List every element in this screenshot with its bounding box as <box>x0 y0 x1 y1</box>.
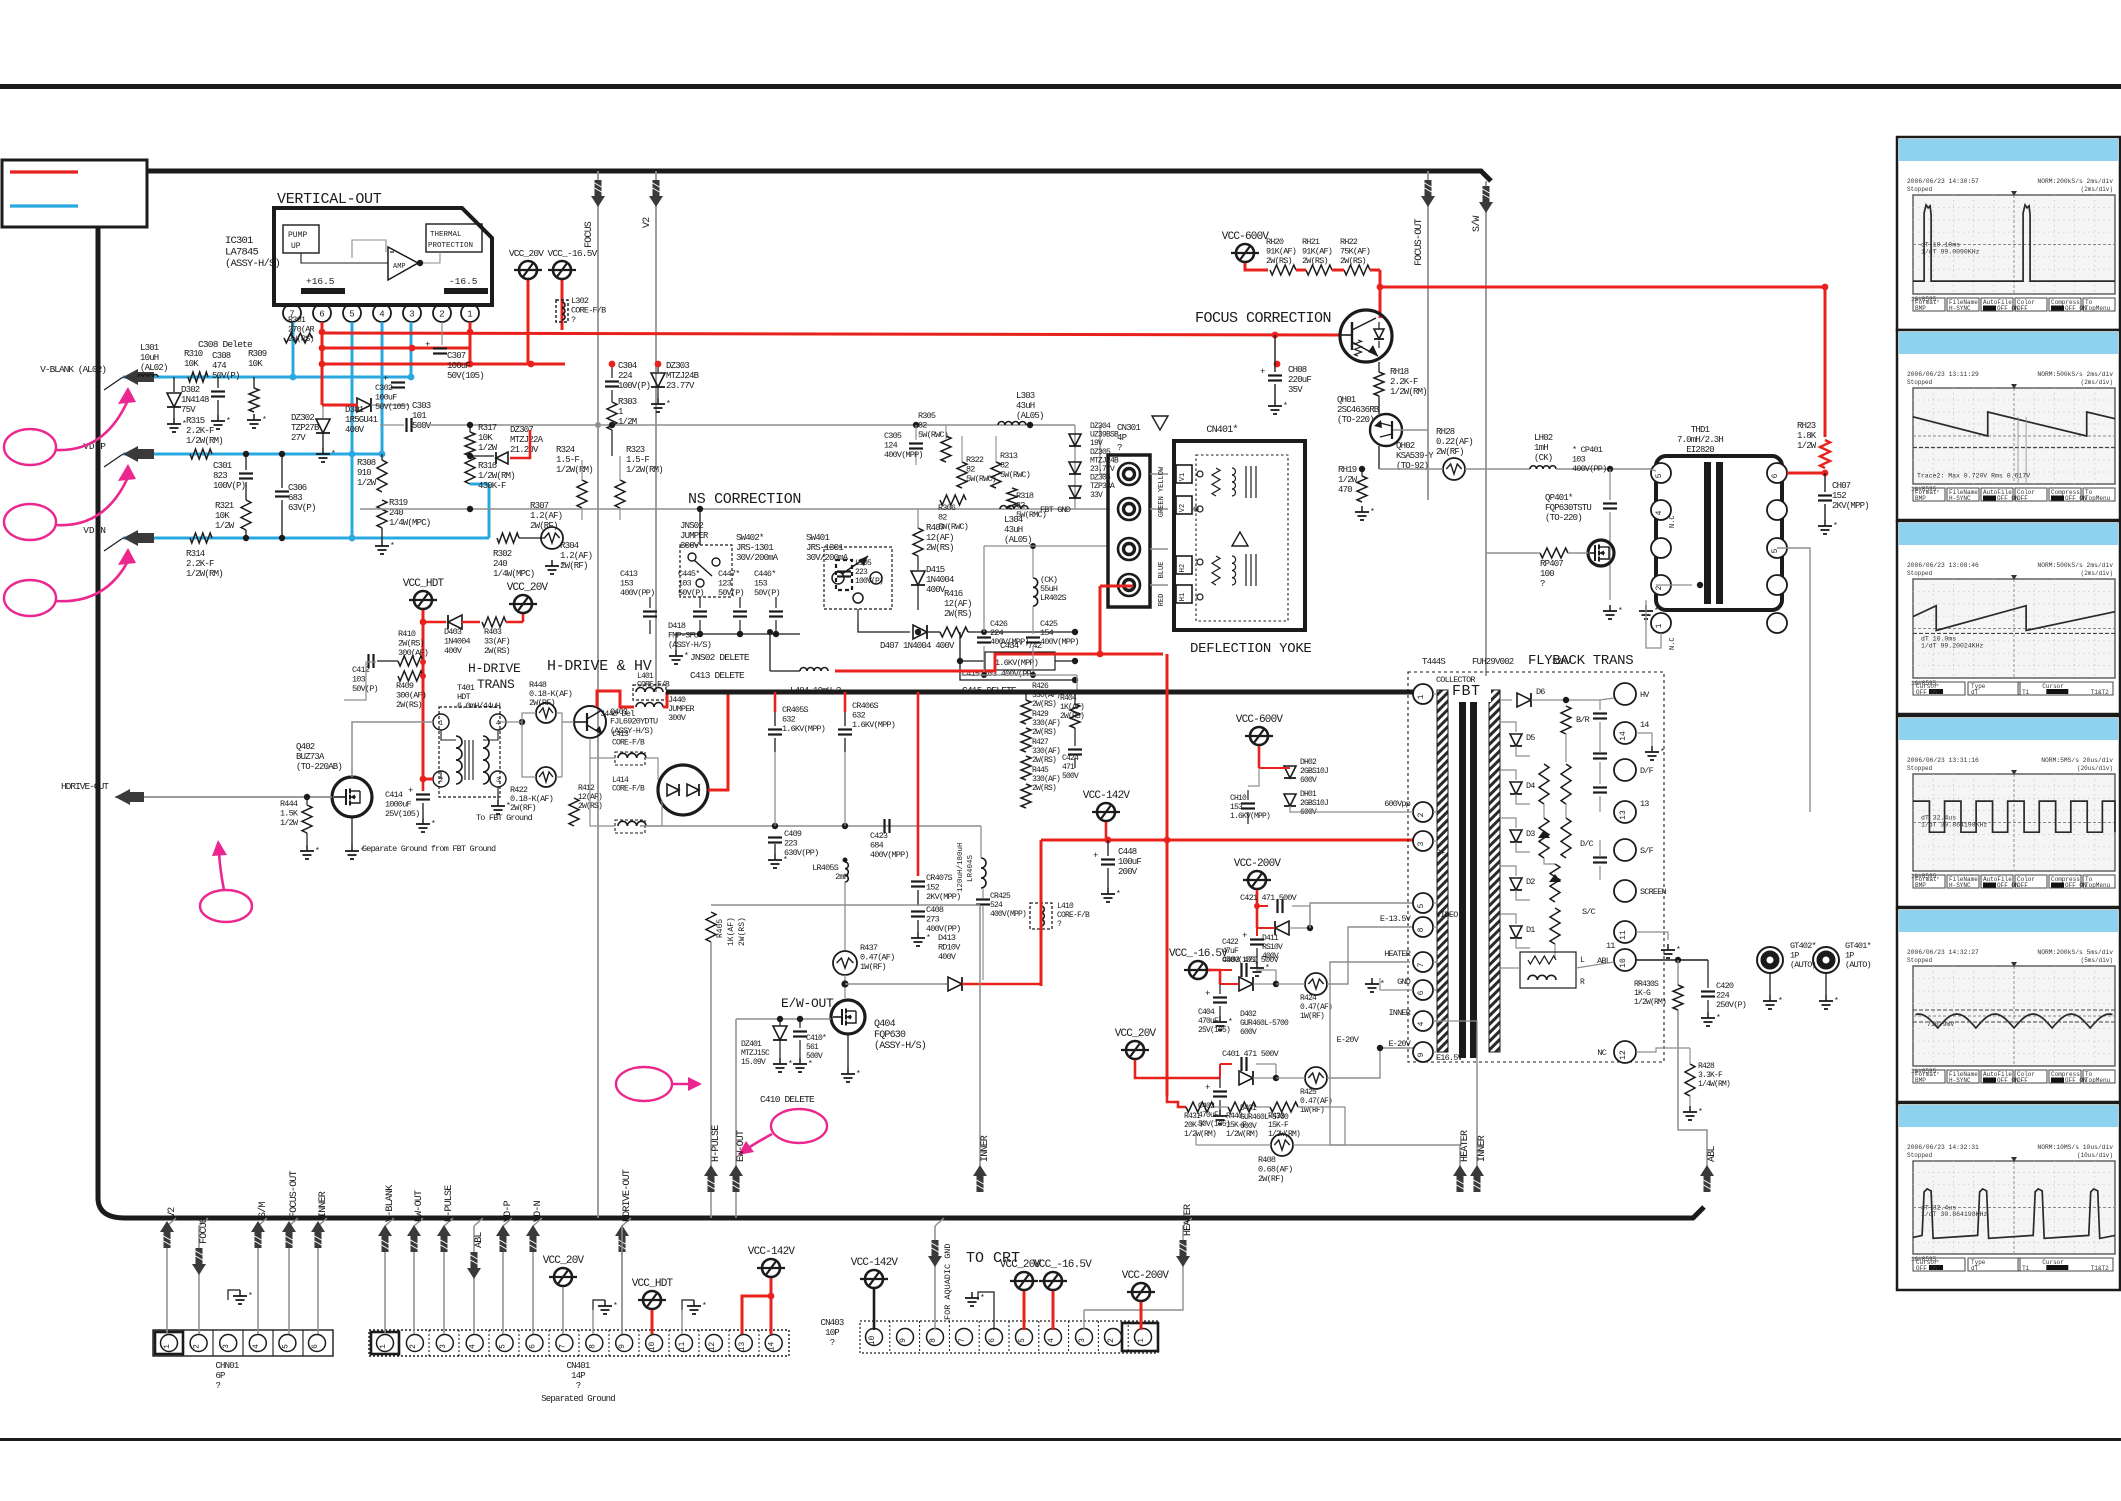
svg-text:100uF: 100uF <box>375 393 397 403</box>
svg-text:C308 Delete: C308 Delete <box>198 339 253 350</box>
svg-text:23.77V: 23.77V <box>666 381 695 391</box>
inductor L410 <box>1030 903 1052 929</box>
svg-text:123: 123 <box>718 579 732 589</box>
svg-text:TopMenu: TopMenu <box>2085 882 2111 889</box>
svg-text:C307: C307 <box>447 351 466 361</box>
node V-BLANK entry arrow <box>123 369 138 385</box>
svg-text:(AL05): (AL05) <box>1004 535 1032 545</box>
svg-text:C308: C308 <box>212 351 231 361</box>
ground R444 <box>306 845 308 851</box>
capacitor C301 resistor R321 <box>245 454 247 470</box>
svg-text:2W(RF): 2W(RF) <box>510 803 536 813</box>
svg-text:R403: R403 <box>484 627 502 637</box>
svg-text:R430: R430 <box>1268 1112 1285 1121</box>
wire cyan riser R316 <box>488 484 491 538</box>
wire cyan drop pin4 <box>381 322 384 454</box>
svg-text:+: + <box>1205 989 1210 999</box>
svg-text:C414: C414 <box>385 790 403 800</box>
svg-text:L303: L303 <box>1016 391 1035 401</box>
svg-text:T1: T1 <box>2022 689 2030 696</box>
diode D403 resistor R403 red link <box>423 621 446 624</box>
ground CN401 pin11 <box>682 1300 694 1310</box>
resistor R301 <box>291 322 293 338</box>
svg-text:10: 10 <box>1619 958 1628 968</box>
op-amp AMP symbol inside IC301 <box>388 247 418 280</box>
svg-text:25V(105): 25V(105) <box>1198 1026 1230 1035</box>
svg-text:H-PULSE: H-PULSE <box>711 1125 722 1162</box>
resistor R315 <box>190 449 212 459</box>
svg-text:6P: 6P <box>215 1371 225 1381</box>
svg-text:*: * <box>1283 402 1287 411</box>
svg-text:82: 82 <box>938 513 947 523</box>
svg-text:HEATER: HEATER <box>1183 1204 1194 1236</box>
wire VD-P cyan net <box>123 453 382 456</box>
svg-text:1P: 1P <box>1790 951 1799 961</box>
svg-text:(20us/div): (20us/div) <box>2077 765 2113 772</box>
svg-text:RH20: RH20 <box>1266 237 1284 247</box>
svg-text:D402: D402 <box>1240 1010 1257 1019</box>
resistor R416 <box>917 600 919 610</box>
svg-text:LA7845: LA7845 <box>225 247 259 259</box>
svg-text:2006/06/23 14:30:57: 2006/06/23 14:30:57 <box>1907 178 1979 185</box>
svg-text:THD1: THD1 <box>1691 425 1710 435</box>
svg-text:632: 632 <box>852 711 866 721</box>
svg-text:FOCUS-OUT: FOCUS-OUT <box>289 1170 300 1218</box>
svg-text:153: 153 <box>754 579 768 589</box>
capacitor C426 <box>983 632 985 634</box>
resistor R412 <box>569 798 579 826</box>
svg-text:R322: R322 <box>966 455 984 465</box>
transformer FBT outline dashed <box>1408 672 1664 1062</box>
svg-text:R405: R405 <box>716 919 725 938</box>
wire pin11 ground <box>1636 932 1668 940</box>
svg-text:223: 223 <box>855 568 868 577</box>
svg-text:10: 10 <box>868 1336 877 1346</box>
ground R304 <box>551 560 553 566</box>
svg-text:1/2W(RM): 1/2W(RM) <box>1226 1130 1258 1139</box>
transistor QH01 <box>1340 310 1392 362</box>
svg-text:7: 7 <box>1417 962 1426 967</box>
oscilloscope panel 5 header bar <box>1899 910 2118 932</box>
svg-text:12: 12 <box>708 1342 717 1352</box>
svg-text:H-SYNC: H-SYNC <box>1949 305 1971 312</box>
svg-text:E-20V: E-20V <box>1336 1035 1359 1045</box>
svg-text:+: + <box>1260 367 1265 377</box>
svg-text:1/2W(RM): 1/2W(RM) <box>1184 1130 1216 1139</box>
connector CN401 <box>369 1330 789 1356</box>
svg-text:13: 13 <box>738 1342 747 1352</box>
svg-text:S/C: S/C <box>1582 907 1596 917</box>
wire EW-OUT vertical <box>735 1019 737 1192</box>
power VCC-142V bottom left <box>762 1259 780 1277</box>
svg-text:50V(P): 50V(P) <box>718 588 744 598</box>
svg-text:NS CORRECTION: NS CORRECTION <box>688 491 801 508</box>
svg-text:QH02: QH02 <box>1396 441 1415 451</box>
svg-text:T444S: T444S <box>1422 657 1445 667</box>
svg-text:H-DRIVE & HV: H-DRIVE & HV <box>547 658 652 675</box>
svg-text:1K-G: 1K-G <box>1634 989 1651 998</box>
svg-text:2W(RF): 2W(RF) <box>1436 447 1464 457</box>
svg-text:BMP: BMP <box>1915 1077 1926 1084</box>
wire red B+ horizontal <box>1041 839 1414 842</box>
svg-text:?: ? <box>571 315 576 325</box>
resistor R422 <box>536 767 556 787</box>
svg-text:1/2W: 1/2W <box>1797 441 1817 451</box>
svg-text:VCC_HDT: VCC_HDT <box>403 578 445 590</box>
svg-text:DZ401: DZ401 <box>741 1040 762 1049</box>
svg-text:2: 2 <box>409 1344 418 1349</box>
svg-text:VD-N: VD-N <box>533 1200 544 1222</box>
svg-text:R313: R313 <box>1000 451 1018 461</box>
svg-text:471: 471 <box>1062 763 1075 772</box>
svg-text:R317: R317 <box>478 423 497 433</box>
svg-text:684: 684 <box>870 841 884 851</box>
svg-text:C447*: C447* <box>718 569 740 579</box>
capacitor CR406S <box>844 692 847 712</box>
svg-text:EW-OUT: EW-OUT <box>414 1190 425 1222</box>
svg-text:1: 1 <box>618 407 623 417</box>
power VCC_-16.5V crt <box>1044 1272 1062 1290</box>
svg-text:GT402*: GT402* <box>1790 941 1817 951</box>
svg-text:9: 9 <box>618 1344 627 1349</box>
oscilloscope panel 6 header bar <box>1899 1105 2118 1127</box>
svg-text:14P: 14P <box>571 1371 585 1381</box>
svg-text:TopMenu: TopMenu <box>2085 1077 2111 1084</box>
resistor R405 <box>706 912 716 942</box>
ground CH08 <box>1274 400 1276 406</box>
svg-text:1/2M: 1/2M <box>618 417 637 427</box>
ground C308 <box>217 415 219 421</box>
svg-text:C445*: C445* <box>678 569 700 579</box>
transformer FBT core bars <box>1459 686 1466 1058</box>
wire CN301 V1 to yoke <box>1150 473 1168 475</box>
svg-text:2W(RS): 2W(RS) <box>1340 256 1366 266</box>
wire mid gray bus y425 <box>414 424 1075 426</box>
ground CH07 <box>1824 520 1826 526</box>
svg-text:240: 240 <box>493 559 507 569</box>
capacitor CH10 <box>1247 790 1249 800</box>
svg-text:10K: 10K <box>215 511 230 521</box>
svg-text:FBT GND: FBT GND <box>1040 505 1071 515</box>
wire THD1 secondary red out <box>1787 472 1825 475</box>
legend red wire sample <box>10 170 78 173</box>
svg-text:(10us/div): (10us/div) <box>2077 1152 2113 1159</box>
svg-text:INNER: INNER <box>1477 1135 1488 1162</box>
svg-text:CHN01: CHN01 <box>215 1361 238 1371</box>
svg-text:2: 2 <box>1107 1338 1116 1343</box>
node EW-OUT arrow <box>733 1176 740 1192</box>
node -16.5 rail bar <box>444 288 488 294</box>
resistor R314 <box>190 533 212 543</box>
capacitor C422 <box>1256 928 1258 936</box>
svg-text:CR406S: CR406S <box>852 701 879 711</box>
yoke H winding pair <box>1176 556 1192 574</box>
svg-text:?: ? <box>576 1381 581 1391</box>
svg-text:To FBT Ground: To FBT Ground <box>476 813 533 823</box>
svg-text:223: 223 <box>784 839 798 849</box>
wire E-20V to pin9 <box>1380 1047 1415 1049</box>
svg-text:L302: L302 <box>571 296 589 306</box>
svg-text:*: * <box>331 450 335 459</box>
svg-text:D413: D413 <box>938 933 956 943</box>
svg-text:T1&T2: T1&T2 <box>2091 689 2109 696</box>
ground C422 <box>1256 962 1258 968</box>
capacitor HV filter <box>1593 712 1607 714</box>
svg-text:SCREEN: SCREEN <box>1640 887 1667 897</box>
svg-text:82: 82 <box>918 421 927 431</box>
svg-text:Trace2: Max 0.720V Rms: Trace2: Max 0.720V Rms 0.617V <box>1917 472 2030 479</box>
svg-text:220uF: 220uF <box>1288 375 1311 385</box>
resistor B/R <box>1561 706 1571 734</box>
svg-text:dT: dT <box>1971 689 1979 696</box>
svg-text:VD-P: VD-P <box>83 441 106 452</box>
svg-text:HDRIVE-OUT: HDRIVE-OUT <box>622 1169 633 1222</box>
svg-text:INNER: INNER <box>980 1135 991 1162</box>
svg-text:JRS-1301: JRS-1301 <box>736 543 773 553</box>
svg-text:INNER: INNER <box>1388 1008 1410 1018</box>
inductor LR404S <box>981 858 986 868</box>
diode ladder FBT secondary <box>1500 699 1512 701</box>
svg-text:C304: C304 <box>618 361 637 371</box>
wire bottom page rule <box>0 1438 2121 1441</box>
svg-text:R445: R445 <box>1032 766 1049 775</box>
svg-text:R424: R424 <box>1300 994 1317 1003</box>
svg-text:S/F: S/F <box>1640 846 1654 856</box>
svg-text:2W(RS): 2W(RS) <box>1266 256 1292 266</box>
ground DZ401 C410 <box>779 1058 781 1064</box>
svg-text:5: 5 <box>1018 1338 1027 1343</box>
resistor R317 zener DZ307 <box>469 425 471 432</box>
svg-text:L410: L410 <box>1057 902 1074 911</box>
capacitor C413 <box>649 597 651 608</box>
svg-text:1R5GU41: 1R5GU41 <box>345 415 378 425</box>
svg-text:2GBS10J: 2GBS10J <box>1300 767 1328 776</box>
svg-text:561: 561 <box>806 1043 819 1052</box>
svg-text:1/dT 99.20024KHz: 1/dT 99.20024KHz <box>1921 642 1984 649</box>
svg-text:dT: dT <box>1971 1265 1979 1272</box>
power VCC_20V top <box>527 280 530 364</box>
svg-text:B/R: B/R <box>1576 715 1590 725</box>
ground RH19 <box>1361 506 1363 512</box>
svg-text:GREEN YELLOW: GREEN YELLOW <box>1158 466 1166 517</box>
svg-text:2W(RS): 2W(RS) <box>484 646 510 656</box>
resistor RH19 <box>1378 446 1380 469</box>
svg-text:400V(MPP): 400V(MPP) <box>870 850 909 860</box>
svg-text:C421 471 500V: C421 471 500V <box>1240 893 1298 903</box>
svg-text:5: 5 <box>1417 903 1426 908</box>
connector CHN01 <box>153 1330 333 1356</box>
svg-text:1.8K: 1.8K <box>1797 431 1817 441</box>
svg-text:R428: R428 <box>1698 1062 1715 1071</box>
svg-text:250V(P): 250V(P) <box>1716 1000 1746 1010</box>
svg-text:1P: 1P <box>1845 951 1854 961</box>
svg-text:?: ? <box>1540 579 1545 589</box>
svg-text:2: 2 <box>193 1344 202 1349</box>
svg-text:14: 14 <box>768 1342 777 1352</box>
svg-text:R306: R306 <box>938 503 956 513</box>
svg-text:103: 103 <box>678 579 692 589</box>
svg-text:*: * <box>666 400 670 409</box>
svg-text:T1: T1 <box>2022 1265 2030 1272</box>
svg-text:75K(AF): 75K(AF) <box>1340 247 1370 257</box>
svg-text:270(AR: 270(AR <box>288 325 315 335</box>
svg-text:?: ? <box>215 1381 220 1391</box>
svg-text:D407 1N4004 400V: D407 1N4004 400V <box>880 641 955 651</box>
legend box <box>2 160 147 227</box>
block thermal protection inside IC301 <box>426 224 482 252</box>
svg-text:R319: R319 <box>389 498 408 508</box>
diode D302 <box>173 377 175 392</box>
pins FBT secondary right <box>1614 683 1636 705</box>
svg-text:21.20V: 21.20V <box>510 445 539 455</box>
svg-text:1/2W(RM): 1/2W(RM) <box>1634 998 1666 1007</box>
svg-text:CORE-F/B: CORE-F/B <box>1057 911 1090 920</box>
svg-text:30V/200mA: 30V/200mA <box>736 553 779 563</box>
block pump-up inside IC301 <box>283 225 319 253</box>
svg-text:400V: 400V <box>444 646 463 656</box>
svg-text:H-SYNC: H-SYNC <box>1949 882 1971 889</box>
svg-text:43uH: 43uH <box>1004 525 1023 535</box>
svg-text:C423: C423 <box>870 831 888 841</box>
svg-text:400V: 400V <box>938 952 957 962</box>
zener stack DZ304 DZ305 DZ306 <box>1074 425 1076 509</box>
callout magenta ellipse 2 <box>4 504 56 540</box>
ground Q402 <box>351 817 353 845</box>
oscilloscope panel 2 header bar <box>1899 332 2118 354</box>
wire red CN301 bottom <box>1100 585 1133 588</box>
svg-text:5: 5 <box>349 310 354 320</box>
svg-text:100V(P): 100V(P) <box>213 481 245 491</box>
svg-text:QH01: QH01 <box>1337 395 1356 405</box>
svg-text:2: 2 <box>439 310 444 320</box>
switch SW401 <box>824 547 892 609</box>
svg-text:2.2K-F: 2.2K-F <box>186 426 214 436</box>
svg-text:C420: C420 <box>1716 981 1734 991</box>
svg-text:1/2W: 1/2W <box>478 443 498 453</box>
svg-text:*: * <box>1660 748 1664 757</box>
svg-text:1.5K: 1.5K <box>280 809 299 819</box>
svg-text:82: 82 <box>1000 461 1009 471</box>
svg-text:VCC_20V: VCC_20V <box>509 248 544 259</box>
wire INNER mid <box>979 905 981 1192</box>
wire red net pin6 column <box>321 322 324 405</box>
svg-text:KSA539-Y: KSA539-Y <box>1396 451 1434 461</box>
ground C420 <box>1707 1012 1709 1018</box>
svg-text:C403 471 500V: C403 471 500V <box>1222 955 1280 965</box>
svg-text:1: 1 <box>467 310 472 320</box>
svg-text:(2ms/div): (2ms/div) <box>2081 379 2113 386</box>
svg-text:13: 13 <box>1640 799 1649 809</box>
wire red rail y348 <box>322 347 470 350</box>
svg-text:C303: C303 <box>412 401 431 411</box>
resistor R310 <box>188 372 208 382</box>
svg-text:124: 124 <box>884 441 898 451</box>
inductor LH02 <box>1530 466 1537 469</box>
ground CHN01 pin3 <box>228 1290 240 1300</box>
svg-text:DZ303: DZ303 <box>666 361 689 371</box>
svg-text:*: * <box>1834 997 1838 1006</box>
legend cyan wire sample <box>10 204 78 207</box>
capacitor CH08 <box>1272 332 1279 339</box>
oscilloscope panel 3 header bar <box>1899 523 2118 545</box>
oscilloscope panel 1 header bar <box>1899 139 2118 161</box>
capacitor CR407S <box>911 880 925 882</box>
svg-text:ABL: ABL <box>474 1232 485 1248</box>
choke LR parallel <box>1520 952 1576 988</box>
svg-text:300V: 300V <box>680 541 700 551</box>
svg-text:1/2W: 1/2W <box>1338 475 1358 485</box>
power VCC_20V hdrive <box>514 595 532 613</box>
transformer FBT primary winding hatch <box>1437 690 1448 1052</box>
svg-text:1/2W(RM): 1/2W(RM) <box>478 471 515 481</box>
capacitor C423 <box>883 819 885 833</box>
pins IC301 1-7 <box>291 303 293 305</box>
svg-text:400V(MPP): 400V(MPP) <box>990 637 1029 647</box>
svg-text:NORM:500kS/s 2ms/div: NORM:500kS/s 2ms/div <box>2037 371 2113 378</box>
wire red J440 loop <box>597 691 634 707</box>
capacitor C306 <box>281 454 283 488</box>
callout magenta ellipse hdrive <box>200 890 252 922</box>
svg-text:R431: R431 <box>1184 1112 1201 1121</box>
svg-text:2GBS10J: 2GBS10J <box>1300 799 1328 808</box>
svg-text:6.0mH/44uH: 6.0mH/44uH <box>457 701 501 711</box>
svg-text:(AUTO): (AUTO) <box>1790 960 1816 970</box>
wire red D301 branch <box>322 404 358 407</box>
svg-text:*: * <box>1228 1018 1232 1027</box>
svg-text:S/M: S/M <box>257 1202 269 1218</box>
pins FBT primary side <box>1413 684 1433 704</box>
svg-text:524: 524 <box>990 901 1003 910</box>
svg-text:5: 5 <box>1655 473 1664 478</box>
callout magenta ellipse 3 <box>4 580 56 616</box>
ground CN401 pin8 <box>593 1300 605 1310</box>
svg-text:CR425: CR425 <box>990 892 1011 901</box>
svg-text:35V: 35V <box>1288 385 1303 395</box>
warning triangle yoke <box>1152 416 1168 430</box>
svg-text:4P: 4P <box>1117 433 1127 443</box>
capacitor C307 <box>441 322 443 345</box>
svg-text:330(AF): 330(AF) <box>1032 747 1060 756</box>
svg-text:1.6KV(MPP): 1.6KV(MPP) <box>1230 812 1270 821</box>
svg-text:2006/06/23 14:32:31: 2006/06/23 14:32:31 <box>1907 1144 1979 1151</box>
svg-text:TRANS: TRANS <box>477 677 515 692</box>
svg-text:*: * <box>315 847 319 856</box>
svg-text:2W(RS): 2W(RS) <box>1032 700 1056 709</box>
wire pin14 ground <box>1636 733 1652 746</box>
power VCC-600V top <box>1236 244 1254 262</box>
svg-text:100: 100 <box>1540 569 1554 579</box>
svg-text:D3: D3 <box>1526 829 1535 839</box>
svg-text:1/2W(RM): 1/2W(RM) <box>186 569 223 579</box>
svg-text:1: 1 <box>1137 1338 1146 1343</box>
svg-text:50V(P): 50V(P) <box>352 684 378 694</box>
svg-text:C409: C409 <box>784 829 802 839</box>
svg-text:Q402: Q402 <box>296 742 315 752</box>
svg-text:12(AF): 12(AF) <box>926 533 954 543</box>
svg-text:27V: 27V <box>291 433 306 443</box>
svg-text:R314: R314 <box>186 549 205 559</box>
svg-text:(2ms/div): (2ms/div) <box>2081 186 2113 193</box>
svg-text:R304: R304 <box>560 541 579 551</box>
svg-text:400V(PP): 400V(PP) <box>620 588 654 598</box>
svg-text:120uH/180uH: 120uH/180uH <box>957 842 965 892</box>
svg-text:4: 4 <box>469 1344 478 1349</box>
svg-text:VCC-142V: VCC-142V <box>748 1246 796 1258</box>
svg-text:DZ302: DZ302 <box>291 413 314 423</box>
svg-text:*: * <box>783 856 787 865</box>
svg-text:5W(RWC): 5W(RWC) <box>918 430 948 440</box>
svg-text:(2ms/div): (2ms/div) <box>2081 570 2113 577</box>
